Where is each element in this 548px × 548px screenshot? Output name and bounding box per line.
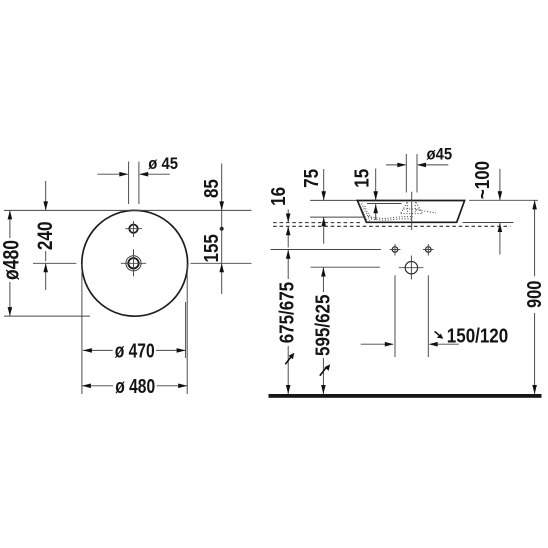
label 900 vertical [523,281,546,308]
label ø45 side [427,146,453,164]
faucet hole centerlines [125,221,142,237]
dimension 900 [532,200,537,394]
dimension ø45 side left arrow [386,163,406,168]
svg-text:85: 85 [200,179,223,198]
break arrow 150/120 [435,331,444,338]
svg-text:150/120: 150/120 [447,324,508,347]
console line for 75 dim [310,216,365,218]
dimension 75 [321,169,326,244]
svg-text:ø 470: ø 470 [115,340,155,362]
drain hole side view [399,256,424,280]
mounting hole extension lines down [395,275,428,357]
washbasin side outline [357,201,464,223]
countertop dashed line lower [273,225,510,227]
dimension 85/155: vertical line with dot [219,164,224,295]
mounting hole right [423,244,434,256]
side view: rim reference line right [469,199,538,201]
dimension ø480 left: line [8,210,13,316]
svg-text:16: 16 [267,187,290,206]
dimension 595/625 [321,268,326,395]
drain axis reference line [311,266,380,268]
washbasin plan view: outer rim circle ø480 [82,210,188,316]
faucet hole ø45 plan [129,225,137,233]
label 16 vertical [267,187,290,206]
dimension 240: line and outside arrows [43,181,48,290]
faucet hole ø45 extension lines side [406,154,417,193]
dimension ø45 left arrow [98,172,129,177]
mounting hole left [390,244,401,256]
faucet axis line side [411,192,413,230]
inner ledge line [367,202,402,204]
dimension 16 [286,210,291,248]
svg-text:595/625: 595/625 [311,295,334,356]
label ø 45 plan [148,156,178,174]
svg-text:155: 155 [200,234,223,262]
side view: rim reference line left [310,199,357,201]
svg-text:ø 45: ø 45 [148,156,178,174]
label 75 vertical [300,169,323,188]
svg-text:~100: ~100 [471,161,494,199]
top tangent reference line [4,209,252,211]
label ø 480 [115,375,155,397]
break arrow 675/675 [285,353,294,365]
label ø 470 [115,340,155,362]
svg-text:15: 15 [350,169,373,188]
inner bowl bottom stipple band [368,210,436,220]
dimension 675/675 [286,250,291,394]
dimension ~100 [498,169,503,255]
dimension ø470: line and arrows [83,348,186,353]
mounting hole axis line [271,249,381,251]
ceramic section stipple left wall [359,203,372,222]
label 15 vertical [350,169,373,188]
centre reference line right [191,262,252,264]
drain inner circle [128,258,138,268]
bottom tangent reference line [4,315,90,317]
label 150/120 [447,324,508,347]
label 240 vertical [33,221,57,250]
svg-text:ø 480: ø 480 [115,375,155,397]
floor line [269,394,542,398]
svg-text:ø45: ø45 [427,146,453,164]
label 595/625 vertical [311,295,334,356]
drain outer circle [126,256,141,271]
label ~100 vertical [471,161,494,199]
label 675/675 vertical [275,282,298,343]
svg-text:240: 240 [33,221,57,250]
dimension ø480 bottom: line and arrows [82,384,187,389]
svg-text:675/675: 675/675 [275,282,298,343]
svg-text:75: 75 [300,169,323,188]
dimension ø45 extension lines [129,162,139,205]
label 85 vertical [200,179,223,198]
console top line right of basin [463,222,514,224]
dimension ø480 extension line left [81,264,83,394]
dimension ø45 right arrow [139,172,170,177]
label 155 vertical [200,234,223,262]
svg-text:900: 900 [523,281,546,308]
dimension ø45 side right arrow [417,163,448,168]
dimension 15 [373,169,378,221]
dimension 150/120 left arrow [361,342,394,347]
dimension ø480 extension line right [186,264,188,394]
drain centerlines [121,249,146,276]
svg-text:ø480: ø480 [0,240,24,280]
faucet mound dotted cone [401,202,423,214]
countertop dashed line upper [273,222,361,224]
label ø480 vertical [0,240,24,280]
dimension 150/120 right arrow [429,342,459,347]
dimension ø470 extension line right [185,302,187,358]
break arrow 595/625 [320,364,330,376]
centre reference line left [33,262,76,264]
